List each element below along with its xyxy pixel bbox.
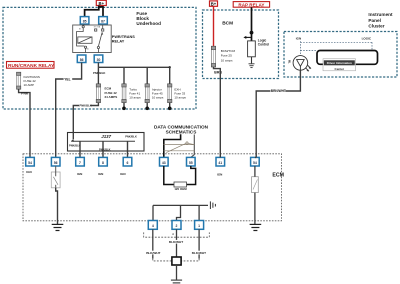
svg-text:BLK/WHT: BLK/WHT [192,251,206,255]
svg-text:PNK/BLK: PNK/BLK [79,104,91,108]
instrument panel cluster dashed box [284,32,397,78]
data schematic reference icon [164,143,195,153]
svg-text:10 AMP: 10 AMP [24,83,35,87]
svg-text:87 87A: 87 87A [94,26,101,29]
connector 43 [160,157,169,166]
svg-text:6: 6 [127,161,129,165]
relay switch contacts [95,25,104,53]
label YEL [64,77,73,81]
wire logic to ground [251,57,253,64]
svg-text:Block: Block [136,16,149,21]
wire pin 1 down [198,229,200,258]
wire BRN/WHT lamp to ECM 54R [255,70,301,157]
connector 2 [172,221,181,230]
wire 43 to resistor [164,166,174,185]
label BRN [214,70,223,74]
label PNK/BLK [93,71,104,74]
ECM internal ground bus [153,204,208,206]
label BRN/WHT [270,89,285,93]
wire PNK to ECM pin 54 [19,89,30,157]
svg-text:1: 1 [198,224,200,228]
wire PNK/BLK ECM fuse to J137 [73,103,98,133]
wire J137 entry [72,133,74,140]
wire splice to ground [176,265,178,280]
svg-text:Driver Information: Driver Information [327,61,352,65]
fuse ECM 42 label [105,87,118,99]
svg-text:BLK/WHT: BLK/WHT [146,251,160,255]
dashed connector bracket [144,232,210,237]
svg-text:IGN: IGN [217,173,222,177]
logic control block [248,41,256,57]
wires bus drops to pins 4 2 1 [152,205,154,220]
fuse EXH 33 [168,84,172,103]
connector 56 [51,157,60,166]
wire data leader to pin 43 [164,134,181,157]
svg-text:43: 43 [162,161,166,165]
node injector out [145,107,149,111]
svg-text:IGN: IGN [120,172,125,176]
svg-text:8: 8 [102,161,104,165]
driver information display outline [317,51,378,65]
internal chassis ground symbol [210,201,215,209]
fuse Turbo 41 label [129,88,141,100]
wire BRN to ECM pin 41 [214,67,221,157]
svg-text:30: 30 [97,58,101,62]
node turbo out [122,107,126,111]
svg-text:Cluster: Cluster [368,24,384,29]
svg-text:BRN: BRN [214,71,222,75]
arrow to other circuits [246,36,252,38]
ground G main [171,280,182,283]
connector 54 (left) [26,157,35,166]
connector 41 [216,157,225,166]
connector 54 (right) [251,157,260,166]
connector 30 [94,55,103,63]
svg-text:Panel: Panel [368,18,381,23]
wire RAP relay into BCM [251,7,253,41]
node bus end [169,66,171,68]
wire relay 30 to fuse bus [97,63,99,68]
wire pin 4 down [152,229,154,258]
svg-text:Fuse 25: Fuse 25 [221,54,232,58]
wire data link to pin 55 [191,135,195,158]
svg-text:TM: TM [289,60,292,63]
label RUN/CRANK RELAY [7,62,55,69]
resistor 120 ohm [174,182,187,187]
svg-text:SCHEMATICS: SCHEMATICS [166,130,197,135]
node exh out [168,107,172,111]
svg-text:10 amps: 10 amps [221,58,233,62]
wire red B+ to BCM fuse [213,6,215,46]
svg-text:DATA COMMUNICATION: DATA COMMUNICATION [154,124,209,129]
svg-text:RUN/CRANK RELAY: RUN/CRANK RELAY [8,63,55,69]
svg-text:86: 86 [80,58,84,62]
svg-text:PNK/BLK: PNK/BLK [69,144,81,148]
svg-text:Underhood: Underhood [136,21,161,26]
fuse Injector 45 label [152,88,164,100]
fuse Turbo 41 [122,84,126,103]
wires fuse outputs to nodes [124,103,170,109]
wire J137 internal bus [71,140,135,142]
svg-text:Control: Control [258,42,269,46]
fuse F42 label [24,75,40,87]
svg-text:PNK/BLK: PNK/BLK [125,134,137,138]
svg-text:IGN: IGN [26,170,31,174]
connector 6 [123,157,132,166]
ground BCM logic [249,64,255,68]
label RAP RELAY [233,2,269,8]
svg-text:Center: Center [335,67,345,71]
svg-text:Instrument: Instrument [368,12,393,17]
svg-text:54: 54 [253,161,257,165]
node RAP junction [250,31,254,35]
ground G yel path [52,224,64,230]
label BLK/WHT right [191,251,206,255]
fuse ECM 42 [96,84,100,103]
indicator lamp [293,56,311,72]
wire bus drops to fuses [98,67,169,84]
label Instrument Panel Cluster [368,12,393,28]
svg-text:ECM: ECM [272,173,284,179]
connector 4 [148,221,157,230]
connector 8 [99,157,108,166]
driver transistor under 54R [252,177,259,193]
svg-text:87: 87 [101,20,105,24]
svg-text:IGN: IGN [77,172,82,176]
ground G ecm right [250,224,262,230]
fuse F42 run/crank [17,72,21,89]
svg-text:24 AMPS: 24 AMPS [105,95,118,99]
wire 54R to driver [254,166,256,177]
svg-text:RAP RELAY: RAP RELAY [238,2,264,7]
svg-text:IGN: IGN [296,36,301,40]
svg-text:PWR/TRANS: PWR/TRANS [112,35,135,39]
svg-text:54: 54 [28,161,32,165]
relay coil K1 [77,24,92,52]
J137 entry arrow [71,139,74,142]
svg-text:56: 56 [54,161,58,165]
svg-text:B+: B+ [99,1,105,6]
svg-text:10 amps: 10 amps [152,96,164,100]
svg-text:85: 85 [83,20,87,24]
svg-text:IGN: IGN [98,172,103,176]
wire switch to ground [56,188,58,224]
label DATA COMMUNICATION SCHEMATICS [154,124,209,134]
svg-text:PNK: PNK [21,92,29,96]
label PNK/BLK [79,103,91,107]
fuse BCM/TCM label [221,49,236,63]
wire 55 to resistor [187,166,196,185]
splice pack J137 box [68,133,145,152]
ECM dashed box [23,154,282,221]
svg-text:120 OHM: 120 OHM [174,187,187,191]
svg-text:55: 55 [189,161,193,165]
label PWR/TRANS RELAY [112,35,135,44]
connector 1 [195,221,204,230]
B+ terminal (BCM) [210,1,218,7]
label BLK/WHT center [168,240,183,244]
svg-text:4: 4 [152,224,154,228]
connector 87 [99,17,108,25]
ignition switch inside ECM [51,166,60,188]
svg-text:PNK/BLK: PNK/BLK [93,71,105,75]
svg-text:B+: B+ [211,1,217,6]
svg-text:J137: J137 [101,134,111,139]
wire pin 2 down BLK/WHT [176,229,178,257]
driver information center label box [323,59,356,71]
svg-text:41: 41 [218,161,222,165]
svg-text:10 amps: 10 amps [129,96,141,100]
ground splice block [172,257,181,265]
connector 86 [77,55,86,63]
svg-text:10 amps: 10 amps [174,96,186,100]
fuse block underhood dashed box [3,7,196,109]
svg-text:7: 7 [79,161,81,165]
fuse EXH 33 label [174,88,186,100]
label Logic Control [258,38,269,46]
svg-text:PNK/BLK: PNK/BLK [99,148,111,152]
cluster internal dashed wires [300,41,372,55]
fuse Injector 45 [145,84,149,103]
fuse BCM/TCM 25 [211,46,215,67]
svg-text:A: A [172,233,174,236]
svg-text:YEL: YEL [64,77,70,81]
BCM dashed box [203,10,279,79]
wire driver to ground [254,193,256,225]
svg-text:BCM: BCM [222,21,233,27]
svg-text:BLK/WHT: BLK/WHT [169,240,183,244]
dashed splice links [153,259,172,261]
svg-text:BRN/WHT: BRN/WHT [271,89,286,93]
svg-text:LOGIC: LOGIC [362,36,372,40]
svg-text:RELAY: RELAY [112,40,125,44]
wire YEL relay 86 to ECM pin 56 [56,63,82,158]
label Fuse Block Underhood [136,11,161,26]
connector 55 [187,157,196,166]
wire fuse bus [98,66,169,68]
wires J137 outputs to pins 7 8 6 [80,141,128,157]
B+ terminal (fuse block) [96,0,106,6]
pwr/trans relay outline [73,25,112,53]
label BLK/WHT left [146,251,161,255]
wire B+ feed to relay pins [85,6,103,17]
svg-text:BCM/TCM: BCM/TCM [221,49,236,53]
connector 85 [80,17,89,25]
connector 7 [76,157,85,166]
svg-text:2: 2 [176,224,178,228]
